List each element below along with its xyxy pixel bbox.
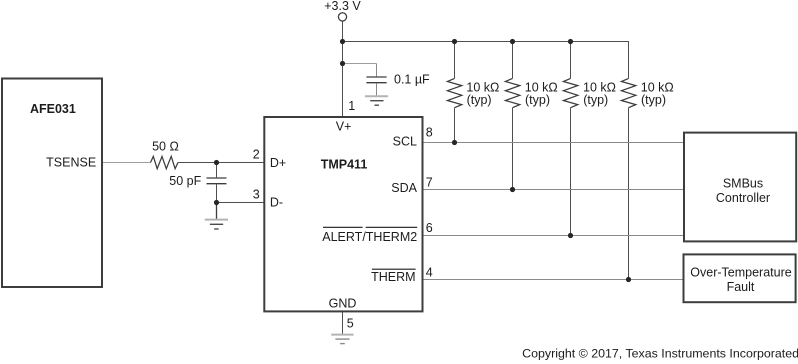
svg-text:(typ): (typ) (525, 93, 550, 107)
svg-text:GND: GND (329, 296, 357, 310)
svg-text:V+: V+ (336, 120, 352, 134)
svg-text:7: 7 (426, 176, 433, 190)
svg-text:2: 2 (253, 147, 260, 161)
svg-text:5: 5 (347, 317, 354, 331)
svg-text:6: 6 (426, 221, 433, 235)
svg-text:SMBus: SMBus (723, 176, 763, 190)
svg-text:1: 1 (348, 99, 355, 113)
svg-text:(typ): (typ) (583, 93, 608, 107)
svg-text:D-: D- (270, 196, 283, 210)
svg-text:ALERT/THERM2: ALERT/THERM2 (322, 230, 417, 244)
svg-text:AFE031: AFE031 (30, 102, 76, 116)
svg-text:(typ): (typ) (641, 93, 666, 107)
svg-text:8: 8 (426, 125, 433, 139)
svg-text:TSENSE: TSENSE (46, 156, 96, 170)
svg-text:SCL: SCL (393, 135, 417, 149)
svg-text:Fault: Fault (727, 280, 755, 294)
svg-text:THERM: THERM (371, 270, 415, 284)
svg-text:50 pF: 50 pF (169, 174, 201, 188)
svg-text:Copyright © 2017, Texas Instru: Copyright © 2017, Texas Instruments Inco… (522, 347, 798, 361)
svg-text:+3.3 V: +3.3 V (324, 0, 361, 13)
svg-text:(typ): (typ) (467, 93, 492, 107)
svg-text:4: 4 (426, 266, 433, 280)
svg-text:TMP411: TMP411 (321, 158, 368, 172)
svg-text:Over-Temperature: Over-Temperature (690, 265, 791, 279)
svg-text:0.1 µF: 0.1 µF (394, 73, 430, 87)
svg-text:Controller: Controller (716, 191, 770, 205)
svg-text:D+: D+ (270, 156, 286, 170)
svg-text:3: 3 (253, 188, 260, 202)
svg-text:SDA: SDA (391, 181, 417, 195)
svg-text:50 Ω: 50 Ω (152, 139, 179, 153)
